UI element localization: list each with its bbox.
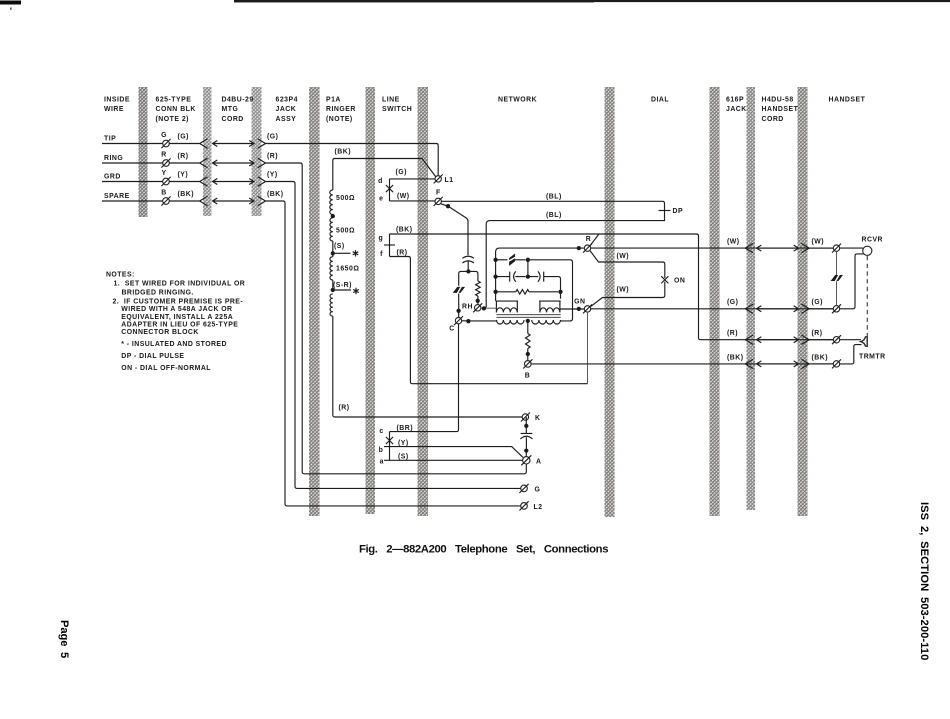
svg-text:ON: ON: [674, 277, 685, 284]
varistor RV2 (network top row): [496, 259, 508, 261]
column label 625-TYPE CONN BLK (NOTE 2): [156, 97, 196, 123]
wire B terminal to handset (BK) row: [531, 363, 833, 365]
induction coil primary winding (left): [496, 301, 518, 312]
wire varistor row to right corner and down to winding lead: [530, 260, 573, 321]
wire ringer (S) tap to stored asterisk: [332, 241, 334, 253]
line switch contact bar d-e: [389, 179, 391, 201]
junction dot capacitor to varistor/resistor branches: [466, 269, 470, 273]
varistor RV (left branch, to C): [453, 287, 465, 293]
svg-text:BRIDGED RINGING.: BRIDGED RINGING.: [122, 289, 194, 296]
svg-text:(BK): (BK): [727, 354, 744, 361]
capacitor C4 (ringer condenser): [521, 417, 533, 433]
hatch bar: inside wire / 625-type conn blk boundary: [139, 87, 148, 217]
cord plug/jack chevrons and arrows D4BU-29 (SPARE): [200, 196, 208, 205]
svg-text:* - INSULATED AND STORED: * - INSULATED AND STORED: [121, 341, 227, 348]
svg-text:(S): (S): [398, 454, 409, 461]
wire (BL) bottom from DP bracket to network bus: [484, 219, 665, 309]
svg-text:500Ω: 500Ω: [336, 195, 355, 202]
svg-text:(W): (W): [617, 287, 630, 294]
svg-text:G: G: [161, 132, 167, 139]
svg-text:RINGER: RINGER: [326, 106, 356, 113]
hatch bar: 616P jack / handset cord boundary: [747, 87, 756, 510]
svg-text:(R): (R): [812, 330, 823, 337]
svg-text:A: A: [536, 458, 541, 465]
junction dot resistor row right: [558, 290, 562, 294]
terminal G on 625-type conn blk (TIP): [161, 139, 170, 148]
resistor R1 (right branch, to RH): [476, 281, 481, 296]
handset cord plug chevrons and arrows ((G)): [745, 304, 753, 313]
wire SPARE (BK) jack assy down to ringer L2 terminal: [266, 201, 521, 506]
dial break X on c-b bar: [386, 437, 393, 444]
hatch bar: dial / 616P jack boundary: [710, 87, 720, 516]
svg-text:RH: RH: [462, 303, 473, 310]
wire handset R terminal to transmitter: [840, 339, 861, 341]
svg-text:ADAPTER IN LIEU OF 625-TYPE: ADAPTER IN LIEU OF 625-TYPE: [121, 322, 238, 329]
svg-text:(BL): (BL): [546, 212, 562, 219]
terminal K: [521, 413, 530, 422]
induction coil secondary winding (bottom): [497, 320, 525, 324]
svg-text:K: K: [535, 415, 540, 422]
svg-text:(BL): (BL): [546, 194, 562, 201]
induction coil core: [496, 315, 560, 318]
wire network GN terminal to handset (G) row: [591, 308, 834, 310]
transmitter TRMTR horn: [861, 337, 867, 347]
resistor R3 (to B terminal): [527, 321, 529, 334]
junction dot varistor row center: [526, 258, 530, 262]
terminal RH: [473, 303, 482, 312]
svg-text:CONN BLK: CONN BLK: [156, 106, 196, 113]
handset terminal ((G)): [832, 304, 841, 313]
handset cord plug chevrons and arrows ((BK)): [745, 359, 753, 368]
wire SPARE inside-wire segment: [102, 200, 163, 202]
line switch break X on d-e bar: [386, 185, 393, 192]
svg-text:ON - DIAL OFF-NORMAL: ON - DIAL OFF-NORMAL: [121, 365, 211, 372]
network left bus: [496, 248, 585, 301]
wire GN terminal down-riser to f contact return: [587, 312, 589, 384]
svg-text:HANDSET: HANDSET: [829, 97, 866, 104]
svg-text:HANDSET: HANDSET: [762, 106, 799, 113]
svg-text:b: b: [379, 447, 384, 454]
column label DIAL: [651, 97, 669, 104]
svg-text:2. IF CUSTOMER PREMISE IS PRE: 2. IF CUSTOMER PREMISE IS PRE-: [113, 298, 244, 305]
wire RING inside-wire segment: [102, 162, 163, 164]
wire right inner riser: [560, 289, 562, 298]
cord plug/jack chevrons and arrows D4BU-29 (GRD): [200, 177, 208, 186]
svg-text:a: a: [380, 458, 384, 465]
wire chevron to handset terminal ((G)): [809, 308, 833, 310]
svg-text:EQUIVALENT, INSTALL A 225A: EQUIVALENT, INSTALL A 225A: [121, 314, 233, 321]
svg-text:(W): (W): [617, 253, 630, 260]
ringer coil winding 1650-ohm section: [332, 253, 334, 256]
capacitor C1 (network, from F): [462, 256, 474, 258]
svg-text:P1A: P1A: [326, 97, 341, 104]
svg-text:R: R: [586, 236, 591, 243]
svg-text:1650Ω: 1650Ω: [336, 265, 359, 272]
svg-text:WIRED WITH A 548A JACK OR: WIRED WITH A 548A JACK OR: [121, 306, 232, 313]
hatch bar: jack assy / P1A ringer boundary: [309, 87, 320, 516]
junction dot capacitor row center: [526, 274, 530, 278]
junction dot secondary center tap: [526, 319, 530, 323]
dial pulse contact DP tick: [659, 210, 671, 212]
ringer lead (BK) from coil top to L1: [333, 159, 436, 191]
junction dot above A: [524, 448, 528, 452]
terminal R on 625-type conn blk (RING): [161, 158, 170, 167]
svg-text:RING: RING: [104, 155, 123, 162]
column label HANDSET: [829, 97, 866, 104]
hatch bar: mtg cord / 623P4 jack boundary: [252, 87, 262, 216]
terminal L2: [519, 501, 528, 510]
svg-text:DP: DP: [673, 208, 684, 215]
contact b lead (Y) wire to A junction: [384, 447, 523, 458]
svg-text:MTG: MTG: [222, 106, 239, 113]
svg-text:B: B: [525, 373, 530, 380]
contact f lead (R) wire down and across to GN riser: [390, 257, 588, 384]
svg-text:(R): (R): [267, 153, 278, 160]
svg-text:(G): (G): [727, 299, 738, 306]
notes text block: [106, 272, 245, 373]
wire GRD (Y) jack assy down to ringer G terminal: [266, 182, 521, 489]
svg-text:625-TYPE: 625-TYPE: [156, 97, 192, 104]
svg-text:L1: L1: [445, 177, 454, 184]
svg-text:e: e: [379, 195, 383, 202]
induction coil primary winding (right): [539, 301, 561, 312]
junction dot below F: [446, 204, 450, 208]
contact g lead (BK) long wire to network R and down-riser to handset (R) row: [390, 234, 834, 340]
hatch bar: line switch / network boundary: [418, 87, 429, 516]
svg-text:(W): (W): [727, 239, 740, 246]
junction dot above RH terminal: [476, 299, 480, 303]
wire dial ON contact to GN terminal (W) lower: [591, 282, 665, 307]
contact a lead (S) wire to A terminal: [384, 459, 523, 461]
ringer coil winding bottom section: [330, 294, 333, 316]
terminal C: [454, 316, 463, 325]
hatch bar: handset cord / handset boundary: [798, 87, 808, 516]
terminal GN (network): [583, 304, 592, 313]
svg-text:(G): (G): [812, 299, 823, 306]
cord plug/jack chevrons and arrows D4BU-29 (RING): [200, 158, 208, 167]
wire TIP conn blk to cord plug: [169, 143, 199, 145]
svg-text:(Y): (Y): [178, 172, 189, 179]
svg-text:623P4: 623P4: [276, 97, 298, 104]
svg-text:CORD: CORD: [222, 116, 244, 123]
wire handset BK terminal up to transmitter: [840, 345, 862, 364]
terminal G (ringer): [519, 484, 528, 493]
terminal R (network): [583, 244, 592, 253]
wire F terminal to DP bracket (BL) top: [441, 201, 664, 218]
svg-text:GRD: GRD: [104, 174, 121, 181]
resistor R2 (network balance): [496, 291, 516, 293]
junction dot below K: [524, 424, 528, 428]
svg-text:(NOTE 2): (NOTE 2): [156, 116, 189, 123]
junction dot above B: [526, 352, 530, 356]
wire right winding lead to GN: [560, 308, 584, 310]
wire SPARE conn blk to cord plug: [169, 200, 199, 202]
svg-text:(NOTE): (NOTE): [326, 116, 353, 123]
terminal B: [523, 359, 532, 368]
ringer coil tap dot (500/500 junction): [331, 214, 335, 218]
svg-text:GN: GN: [574, 298, 585, 305]
svg-text:TRMTR: TRMTR: [859, 353, 886, 360]
junction dot RH right / (BL) bus bottom: [482, 306, 486, 310]
column label INSIDE WIRE: [104, 97, 130, 114]
wire chevron to handset terminal ((BK)): [809, 363, 833, 365]
receiver RCVR: [863, 246, 872, 255]
hatch bar: conn blk / D4BU-29 mtg cord boundary: [203, 87, 211, 216]
svg-text:(W): (W): [812, 239, 825, 246]
svg-text:RCVR: RCVR: [862, 237, 884, 244]
wire chevron to handset terminal ((R)): [809, 339, 833, 341]
wire TIP inside-wire segment: [102, 143, 163, 145]
svg-text:DP - DIAL PULSE: DP - DIAL PULSE: [121, 353, 184, 360]
line switch contact bar g-f: [389, 234, 391, 257]
svg-text:f: f: [380, 251, 383, 258]
handset terminal ((BK)): [832, 359, 841, 368]
capacitor C3 (network, right of pair): [530, 271, 540, 281]
terminal Y on 625-type conn blk (GRD): [161, 177, 170, 186]
svg-text:(R): (R): [178, 153, 189, 160]
junction dot above C terminal: [456, 309, 460, 313]
column label 623P4 JACK ASSY: [276, 97, 298, 123]
svg-text:(Y): (Y): [398, 440, 409, 447]
dial off-normal contact ON X: [661, 276, 668, 283]
wire link varistor row to capacitor row: [527, 260, 529, 277]
dial contact bar c-b-a: [389, 432, 391, 461]
svg-text:SPARE: SPARE: [104, 193, 130, 200]
wire slant from g-wire junction to R terminal: [590, 234, 599, 246]
svg-text:B: B: [161, 190, 166, 197]
contact d lead (G) wire to L1: [390, 178, 436, 180]
wire RING (R) jack assy down to A-terminal return: [266, 163, 527, 474]
wire RING conn blk to cord plug: [169, 162, 199, 164]
svg-text:(BR): (BR): [397, 425, 414, 432]
wire ringer (S-R) tap to stored asterisk: [332, 280, 334, 290]
column label P1A RINGER (NOTE): [326, 97, 356, 123]
ringer lead (R) from coil bottom to K terminal: [333, 316, 522, 417]
svg-text:Y: Y: [161, 170, 166, 177]
contact c lead (BR) wire up to C terminal: [390, 324, 459, 432]
svg-text:JACK: JACK: [726, 106, 747, 113]
svg-text:500Ω: 500Ω: [336, 227, 355, 234]
wire GRD conn blk to cord plug: [169, 181, 199, 183]
junction dot R terminal left: [577, 246, 581, 250]
make tick on g-f bar: [384, 244, 395, 246]
rotated section number ISS 2, SECTION 503-200-110: [918, 502, 930, 660]
terminal L1: [434, 174, 443, 183]
svg-text:SWITCH: SWITCH: [382, 106, 412, 113]
contact e lead (W) wire to F: [390, 200, 436, 202]
svg-text:JACK: JACK: [276, 106, 297, 113]
svg-text:CONNECTOR BLOCK: CONNECTOR BLOCK: [121, 329, 198, 336]
ringer coil winding 500-ohm section 2: [330, 218, 333, 241]
svg-text:NETWORK: NETWORK: [498, 97, 537, 104]
terminal B on 625-type conn blk (SPARE): [161, 196, 170, 205]
wire TIP (G) from jack assy to L1: [266, 144, 439, 176]
wire slant F junction down to capacitor branch: [441, 204, 468, 256]
svg-text:G: G: [535, 486, 541, 493]
svg-text:D4BU-29: D4BU-29: [222, 97, 254, 104]
ringer coil winding 500-ohm section 1: [330, 190, 333, 214]
wire GRD inside-wire segment: [102, 181, 163, 183]
column label D4BU-29 MTG CORD: [222, 97, 254, 123]
scan artifact top-left black dash: [0, 1, 21, 5]
terminal A: [521, 455, 531, 465]
column label NETWORK: [498, 97, 537, 104]
wire R terminal to dial ON contact (W) upper: [590, 251, 665, 278]
handset terminal ((R)): [832, 335, 841, 344]
handset cord plug chevrons and arrows ((W)): [745, 243, 753, 252]
column label H4DU-58 HANDSET CORD: [762, 97, 799, 123]
handset terminal ((W)): [832, 244, 841, 253]
wire handset G terminal up to receiver: [840, 254, 864, 309]
branch tee left and right corners: [459, 271, 469, 285]
svg-text:Fig. 2—882A200 Telephone Se: Fig. 2—882A200 Telephone Set, Connection…: [359, 544, 608, 556]
svg-text:1. SET WIRED FOR INDIVIDUAL O: 1. SET WIRED FOR INDIVIDUAL OR: [114, 280, 246, 287]
wire network R terminal to handset (W) row: [591, 247, 834, 249]
column label 616P JACK: [726, 97, 747, 114]
svg-text:R: R: [161, 152, 166, 159]
junction dot GN left: [577, 307, 581, 311]
svg-text:(G): (G): [396, 169, 407, 176]
dashed line receiver to transmitter (handset outline): [866, 256, 868, 336]
capacitor C2 (network, left of pair): [496, 272, 510, 282]
svg-text:(G): (G): [267, 134, 278, 141]
svg-text:INSIDE: INSIDE: [104, 97, 130, 104]
svg-text:(W): (W): [397, 193, 410, 200]
svg-text:LINE: LINE: [382, 97, 400, 104]
svg-text:C: C: [449, 326, 454, 333]
svg-text:DIAL: DIAL: [651, 97, 669, 104]
svg-text:d: d: [378, 178, 383, 185]
svg-text:(BK): (BK): [335, 149, 352, 156]
svg-text:H4DU-58: H4DU-58: [762, 97, 794, 104]
wire chevron to handset terminal ((W)): [809, 247, 833, 249]
svg-text:F: F: [436, 189, 441, 196]
terminal F: [434, 197, 443, 206]
hatch bar: ringer / line switch boundary: [366, 87, 376, 514]
svg-text:(S-R): (S-R): [333, 282, 352, 289]
svg-text:(R): (R): [727, 330, 738, 337]
svg-text:WIRE: WIRE: [104, 106, 124, 113]
rotated page number Page 5: [58, 620, 70, 658]
svg-text:(R): (R): [397, 249, 408, 256]
svg-text:L2: L2: [534, 504, 543, 511]
svg-text:(BK): (BK): [812, 354, 829, 361]
svg-text:(BK): (BK): [267, 191, 284, 198]
varistor RV3 across receiver: [836, 251, 838, 305]
svg-text:TIP: TIP: [104, 136, 116, 143]
svg-text:NOTES:: NOTES:: [106, 272, 135, 279]
svg-text:(Y): (Y): [267, 172, 278, 179]
svg-text:(S): (S): [334, 243, 345, 250]
svg-text:c: c: [379, 428, 383, 435]
svg-text:(BK): (BK): [178, 191, 195, 198]
svg-text:(BK): (BK): [396, 226, 413, 233]
handset cord plug chevrons and arrows ((R)): [745, 335, 753, 344]
svg-text:(G): (G): [178, 134, 189, 141]
column label LINE SWITCH: [382, 97, 412, 114]
wire RH to winding: [481, 307, 497, 309]
svg-text:ASSY: ASSY: [276, 116, 297, 123]
svg-text:(R): (R): [339, 405, 350, 412]
hatch bar: network / dial boundary: [605, 87, 615, 517]
wire handset W terminal to receiver: [840, 247, 863, 249]
svg-text:g: g: [378, 235, 383, 242]
junction dot C terminal right: [466, 319, 470, 323]
scan artifact top edge line: [234, 0, 950, 2]
junction dots on network left bus: [493, 258, 497, 262]
svg-text:616P: 616P: [726, 97, 744, 104]
cord plug/jack chevrons and arrows D4BU-29 (TIP): [200, 139, 208, 148]
svg-text:CORD: CORD: [762, 116, 784, 123]
